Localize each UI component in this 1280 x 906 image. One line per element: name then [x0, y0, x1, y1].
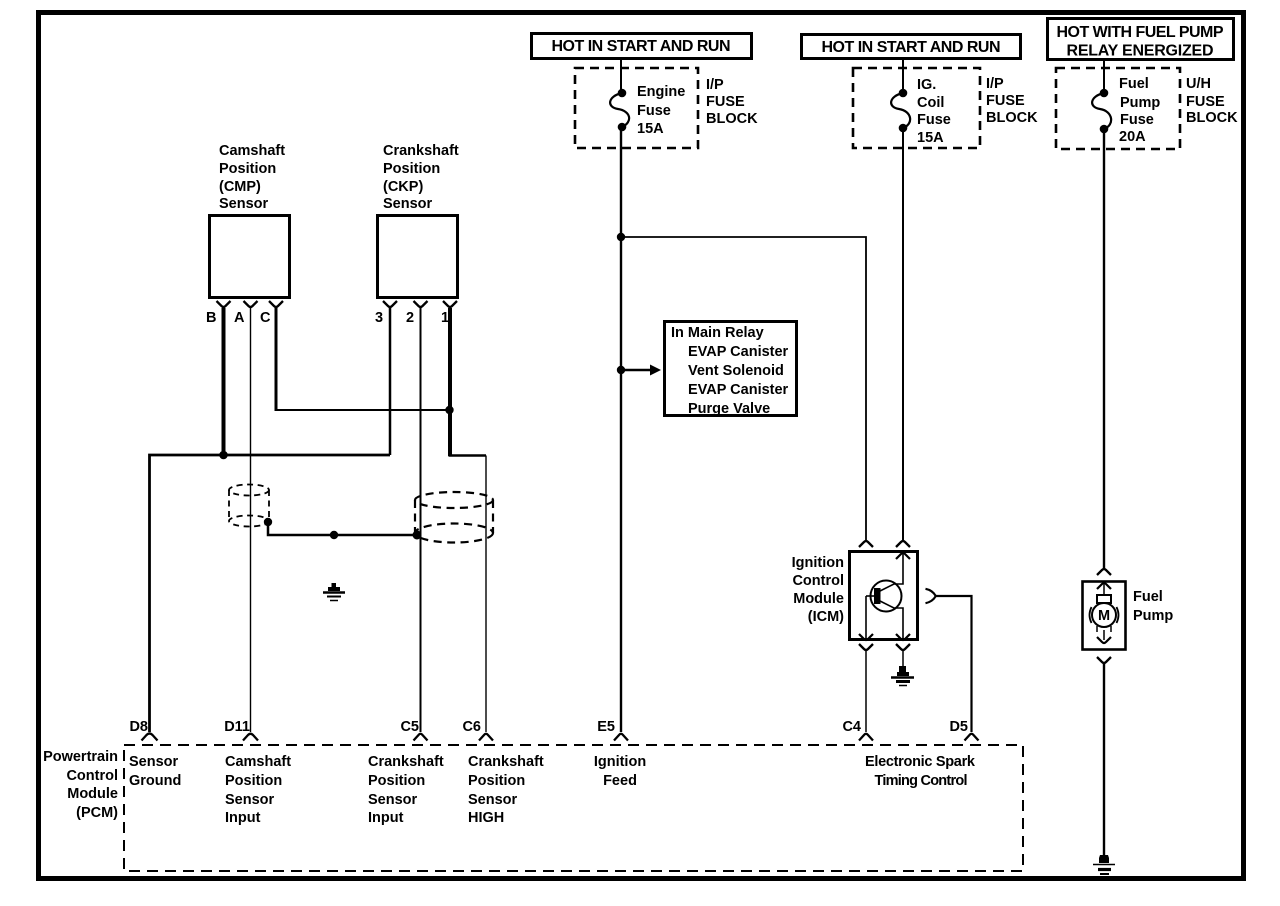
wire jog down to C6	[485, 456, 487, 733]
crankshaft position sensor box	[378, 216, 458, 298]
svg-text:Sensor: Sensor	[368, 792, 418, 808]
ICM internal bottom arrow left	[859, 634, 873, 640]
svg-text:HIGH: HIGH	[468, 810, 504, 826]
fuel pump internal stem	[1103, 583, 1105, 595]
CKP pin 1 connector	[443, 301, 457, 307]
I/P FUSE BLOCK label (left)	[706, 77, 758, 127]
node C to 1 junction	[445, 406, 453, 414]
svg-text:Camshaft: Camshaft	[219, 143, 285, 159]
svg-text:Pump: Pump	[1120, 95, 1160, 111]
CMP sensor title	[219, 143, 285, 212]
fuel pump internal legs	[1096, 626, 1098, 632]
node drain right	[413, 531, 422, 540]
CMP pin C connector	[269, 301, 283, 307]
signal name Ignition Feed (E5)	[594, 754, 646, 789]
wire branch to ICM	[621, 237, 866, 541]
svg-text:Timing Control: Timing Control	[875, 773, 968, 789]
svg-text:Module: Module	[67, 786, 118, 802]
CKP pin 2 connector	[414, 301, 428, 307]
svg-text:FUSE: FUSE	[986, 93, 1025, 109]
fuel pump internal top arrow	[1097, 583, 1111, 589]
wire from right HOT box to IG Coil Fuse	[902, 59, 904, 93]
svg-text:Input: Input	[368, 810, 404, 826]
wire shield drain	[268, 522, 417, 535]
PCM dashed box	[124, 745, 1023, 871]
wire IG coil fuse to ICM	[902, 128, 904, 541]
svg-text:Electronic Spark: Electronic Spark	[865, 754, 976, 770]
ground fuel pump	[1093, 855, 1115, 874]
wire CMP C down	[275, 308, 278, 411]
svg-text:Module: Module	[793, 591, 844, 607]
svg-text:Position: Position	[219, 161, 276, 177]
svg-text:Powertrain: Powertrain	[43, 749, 118, 765]
svg-text:Position: Position	[383, 161, 440, 177]
ICM title	[792, 555, 845, 625]
I/P FUSE BLOCK label (middle)	[986, 76, 1038, 126]
CKP sensor title	[383, 143, 459, 212]
signal name Camshaft Position Sensor Input (D11)	[225, 754, 291, 826]
svg-text:RELAY ENERGIZED: RELAY ENERGIZED	[1067, 43, 1214, 60]
svg-text:Sensor: Sensor	[383, 196, 433, 212]
svg-text:Fuse: Fuse	[917, 112, 951, 128]
fuel pump brush box	[1097, 595, 1111, 603]
svg-text:FUSE: FUSE	[706, 94, 745, 110]
svg-text:Fuel: Fuel	[1119, 76, 1149, 92]
wire CKP 3 down	[389, 308, 392, 455]
wire CKP 1 jog right	[449, 454, 487, 457]
svg-text:Crankshaft: Crankshaft	[468, 754, 544, 770]
node drain middle	[330, 531, 338, 539]
svg-text:C5: C5	[400, 719, 419, 735]
wire fuel pump to ground	[1103, 664, 1105, 857]
svg-text:HOT WITH FUEL PUMP: HOT WITH FUEL PUMP	[1057, 24, 1224, 41]
svg-text:B: B	[206, 310, 216, 326]
CMP pin B connector	[217, 301, 231, 307]
svg-text:Vent Solenoid: Vent Solenoid	[688, 363, 784, 379]
shield around CMP A wire	[229, 485, 269, 527]
wire CKP 2 down to C5	[420, 308, 422, 732]
svg-text:In Main Relay: In Main Relay	[671, 325, 764, 341]
signal name Crankshaft Position Sensor HIGH (C6)	[468, 754, 544, 826]
ICM internal collector wire	[894, 553, 903, 584]
svg-text:Sensor: Sensor	[225, 792, 275, 808]
svg-text:I/P: I/P	[706, 77, 724, 93]
svg-text:Camshaft: Camshaft	[225, 754, 291, 770]
svg-text:Ignition: Ignition	[792, 555, 844, 571]
svg-text:Sensor: Sensor	[129, 754, 179, 770]
svg-text:Input: Input	[225, 810, 261, 826]
svg-text:HOT IN START AND RUN: HOT IN START AND RUN	[552, 38, 731, 55]
svg-text:U/H: U/H	[1186, 76, 1211, 92]
wire ICM to ground	[902, 651, 904, 668]
wire ICM to C4	[865, 651, 867, 732]
ICM internal collector pin arrow	[896, 553, 910, 559]
svg-text:Purge Valve: Purge Valve	[688, 401, 770, 417]
svg-text:Crankshaft: Crankshaft	[383, 143, 459, 159]
node B ground junction	[219, 451, 228, 460]
node relay branch	[617, 366, 625, 374]
label box HOT IN START AND RUN (right)	[802, 35, 1021, 59]
svg-text:C: C	[260, 310, 271, 326]
wire CMP C horizontal to CKP 1	[276, 409, 450, 411]
signal name Sensor Ground (D8)	[129, 754, 181, 789]
svg-text:Fuel: Fuel	[1133, 589, 1163, 605]
svg-text:M: M	[1098, 608, 1110, 624]
wire ignition feed E5	[620, 127, 622, 732]
node ignition feed branch	[617, 233, 625, 241]
svg-text:Coil: Coil	[917, 95, 944, 111]
svg-text:Position: Position	[225, 773, 282, 789]
ICM connector top right	[896, 541, 910, 547]
svg-text:(CKP): (CKP)	[383, 179, 423, 195]
label box HOT WITH FUEL PUMP RELAY ENERGIZED	[1048, 19, 1234, 60]
transistor Q1	[866, 581, 902, 612]
fuse Fuel Pump Fuse 20A	[1092, 89, 1111, 134]
svg-text:Control: Control	[66, 768, 118, 784]
wire sensor ground horizontal	[150, 455, 391, 732]
svg-text:(PCM): (PCM)	[76, 805, 118, 821]
wire CMP A down to D11	[250, 308, 252, 732]
ground (shield drain)	[323, 583, 345, 601]
wire from left HOT box to Engine Fuse	[620, 60, 622, 92]
svg-text:FUSE: FUSE	[1186, 94, 1225, 110]
ICM EST output connector	[926, 589, 936, 603]
fuel pump box	[1083, 582, 1126, 650]
ICM internal emitter wire	[894, 608, 903, 639]
svg-text:BLOCK: BLOCK	[986, 110, 1038, 126]
U/H fuse block (Fuel Pump Fuse) dashed box	[1056, 68, 1180, 149]
svg-text:HOT IN START AND RUN: HOT IN START AND RUN	[822, 39, 1001, 56]
svg-text:Pump: Pump	[1133, 608, 1173, 624]
ignition control module box	[850, 552, 918, 640]
U/H FUSE BLOCK label	[1186, 76, 1238, 126]
CKP pin 3 connector	[383, 301, 397, 307]
camshaft position sensor box	[210, 216, 290, 298]
ground ICM	[891, 666, 914, 686]
wire fuel pump fuse down	[1103, 129, 1105, 568]
wire CKP 1 down	[448, 308, 452, 456]
signal name Crankshaft Position Sensor Input (C5)	[368, 754, 444, 826]
svg-text:1: 1	[441, 310, 449, 326]
wire arrow to In Main Relay	[621, 369, 652, 372]
svg-text:Engine: Engine	[637, 84, 685, 100]
I/P fuse block (Engine Fuse) dashed box	[575, 68, 698, 148]
svg-text:Feed: Feed	[603, 773, 637, 789]
svg-text:EVAP Canister: EVAP Canister	[688, 382, 789, 398]
svg-text:2: 2	[406, 310, 414, 326]
svg-text:IG.: IG.	[917, 77, 936, 93]
svg-text:Position: Position	[468, 773, 525, 789]
svg-text:Fuse: Fuse	[637, 103, 671, 119]
svg-text:C4: C4	[842, 719, 861, 735]
svg-text:3: 3	[375, 310, 383, 326]
svg-text:Sensor: Sensor	[468, 792, 518, 808]
PCM title	[43, 749, 118, 821]
ICM connector bottom right	[896, 644, 910, 650]
svg-text:Sensor: Sensor	[219, 196, 269, 212]
svg-text:I/P: I/P	[986, 76, 1004, 92]
svg-text:Ignition: Ignition	[594, 754, 646, 770]
fuel pump internal bottom arrow	[1103, 630, 1105, 640]
svg-text:EVAP Canister: EVAP Canister	[688, 344, 789, 360]
svg-text:D5: D5	[949, 719, 968, 735]
svg-text:Position: Position	[368, 773, 425, 789]
wire from FUEL PUMP box to Fuel Pump Fuse	[1103, 61, 1105, 93]
fuse IG Coil Fuse 15A	[891, 89, 910, 133]
svg-text:BLOCK: BLOCK	[1186, 110, 1238, 126]
ICM connector top left	[859, 541, 873, 547]
svg-text:C6: C6	[462, 719, 481, 735]
In Main Relay box	[665, 322, 797, 418]
fuse Engine Fuse 15A	[610, 89, 629, 132]
svg-text:D11: D11	[224, 719, 250, 735]
svg-text:D8: D8	[129, 719, 148, 735]
shield around CKP wires	[415, 492, 493, 543]
svg-text:Control: Control	[792, 573, 844, 589]
svg-text:20A: 20A	[1119, 129, 1146, 145]
svg-text:BLOCK: BLOCK	[706, 111, 758, 127]
svg-text:Fuse: Fuse	[1120, 112, 1154, 128]
svg-text:(ICM): (ICM)	[808, 609, 844, 625]
fuel pump connector top	[1097, 569, 1111, 575]
CMP pin A connector	[244, 301, 258, 307]
signal name Electronic Spark Timing Control (C4/D5)	[865, 754, 976, 789]
svg-text:15A: 15A	[637, 121, 664, 137]
fuel pump connector bottom	[1097, 657, 1111, 663]
fuel pump label	[1133, 589, 1173, 624]
ICM internal bottom arrow right	[896, 634, 910, 640]
svg-text:A: A	[234, 310, 245, 326]
node shield drain left	[264, 518, 272, 526]
wire EST to D5	[935, 596, 972, 732]
svg-text:15A: 15A	[917, 130, 944, 146]
svg-text:E5: E5	[597, 719, 615, 735]
motor M	[1090, 603, 1119, 627]
I/P fuse block (IG Coil Fuse) dashed box	[853, 68, 980, 148]
wire CMP B down	[222, 308, 226, 455]
ICM internal base wire to C4 pin	[865, 596, 867, 639]
svg-text:(CMP): (CMP)	[219, 179, 261, 195]
svg-text:Crankshaft: Crankshaft	[368, 754, 444, 770]
label box HOT IN START AND RUN (left)	[532, 34, 752, 59]
svg-text:Ground: Ground	[129, 773, 181, 789]
ICM connector bottom left	[859, 644, 873, 650]
